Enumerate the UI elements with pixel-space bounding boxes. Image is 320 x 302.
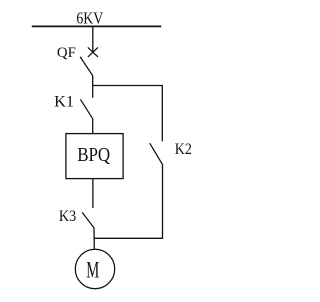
wire K1 to box [92, 118, 94, 134]
switch K1 blade [80, 99, 92, 118]
wire bus to QF [92, 26, 94, 52]
wire K3 to motor [93, 227, 95, 249]
svg-text:M: M [86, 258, 99, 284]
svg-text:K1: K1 [54, 93, 74, 110]
wire branch top [93, 86, 163, 142]
svg-text:6KV: 6KV [76, 8, 103, 27]
switch K2 blade [150, 143, 163, 164]
svg-text:K2: K2 [175, 141, 192, 158]
box BPQ [66, 134, 123, 179]
svg-text:K3: K3 [59, 208, 76, 225]
svg-text:QF: QF [57, 45, 76, 61]
wire box to K3 [92, 179, 94, 208]
wire QF to K1 [92, 75, 94, 98]
switch K3 blade [82, 212, 94, 227]
svg-text:BPQ: BPQ [77, 145, 110, 166]
breaker QF cross [88, 47, 98, 57]
breaker QF blade [80, 57, 92, 76]
wire branch bottom [94, 164, 163, 238]
motor M circle [75, 249, 114, 288]
bus 6KV [32, 25, 161, 27]
